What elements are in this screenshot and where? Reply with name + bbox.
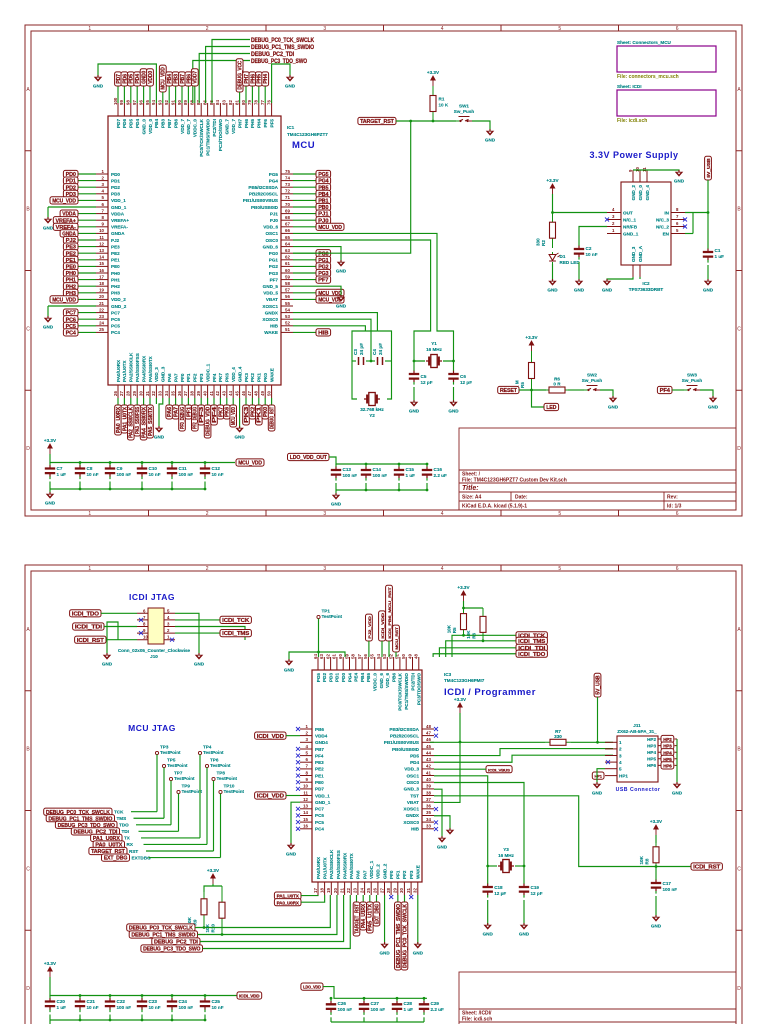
- svg-text:C12: C12: [212, 466, 221, 471]
- IC1 top pin names: [116, 118, 275, 156]
- svg-text:33: 33: [426, 824, 431, 829]
- capacitor C24 100 nF: [167, 996, 193, 1013]
- svg-text:+3.3V: +3.3V: [650, 819, 663, 824]
- svg-text:PC2/TDI: PC2/TDI: [410, 673, 415, 691]
- svg-text:GND_2: GND_2: [382, 863, 387, 879]
- svg-text:GND_0: GND_0: [638, 185, 643, 201]
- J11 pin HP1: [605, 775, 617, 777]
- svg-text:12 pF: 12 pF: [531, 891, 543, 896]
- global label ICDI_PB6_MCU_RST: [386, 585, 393, 641]
- svg-text:24 pF: 24 pF: [378, 343, 383, 355]
- svg-text:PD5: PD5: [129, 119, 134, 128]
- svg-text:10 nF: 10 nF: [212, 1005, 224, 1010]
- svg-text:MCU: MCU: [292, 140, 315, 151]
- svg-text:TestPoint: TestPoint: [174, 776, 195, 781]
- +3.3V power symbol: [427, 70, 440, 86]
- svg-text:GND4: GND4: [315, 740, 328, 745]
- global label PF4: [657, 386, 672, 394]
- svg-text:20: 20: [333, 888, 338, 893]
- svg-text:81: 81: [234, 100, 239, 105]
- svg-text:J11: J11: [633, 723, 641, 728]
- svg-text:VDD_7: VDD_7: [180, 119, 185, 134]
- svg-text:24: 24: [359, 888, 364, 893]
- J10 pin 10 / pin 1: [137, 639, 175, 641]
- svg-text:2.2 uF: 2.2 uF: [431, 1007, 444, 1012]
- wire to C19: [523, 866, 525, 881]
- capacitor C6 12 pF: [448, 368, 472, 385]
- IC2 pin NR/FB: [607, 226, 621, 228]
- svg-text:VDD7: VDD7: [193, 71, 199, 84]
- wire IC1 pin2: [78, 180, 96, 182]
- wire IC1 right pin68: [293, 219, 316, 221]
- ground: [336, 295, 347, 309]
- global label PC5: [63, 322, 78, 330]
- svg-text:C: C: [737, 326, 741, 332]
- wire DEBUG_PC0_TCK_SWCLK: [212, 40, 250, 104]
- junction: [426, 489, 429, 492]
- resistor R8 10K: [639, 843, 659, 867]
- svg-text:VDD_7: VDD_7: [231, 119, 236, 134]
- svg-text:File: TM4C123GH6PZT7 Custom De: File: TM4C123GH6PZT7 Custom Dev Kit.sch: [462, 478, 567, 484]
- no-connect IC3 pin15: [296, 820, 300, 824]
- svg-text:PA5_SSI0TX: PA5_SSI0TX: [148, 406, 154, 436]
- wire C22 gnd: [109, 1015, 111, 1021]
- global label PH5: [255, 72, 262, 86]
- svg-text:PD1: PD1: [335, 673, 340, 682]
- wire IC1 pin18: [78, 285, 96, 287]
- global label MCU_VDD: [236, 459, 264, 467]
- junction: [363, 997, 366, 1000]
- global label PF3: [198, 405, 205, 425]
- no-connect J10 pin1: [170, 638, 174, 642]
- svg-text:HIB: HIB: [411, 827, 420, 832]
- svg-text:Sheet: Connectors_MCU: Sheet: Connectors_MCU: [617, 40, 672, 45]
- svg-text:TM4C123GH6PMI7: TM4C123GH6PMI7: [444, 678, 485, 683]
- global label DEBUG_PC3_TDO_SWO: [55, 821, 117, 829]
- svg-text:D1: D1: [560, 254, 566, 259]
- LED D1 RED LED: [549, 252, 580, 265]
- svg-text:10 nF: 10 nF: [149, 1005, 161, 1010]
- wire R6 to SW2: [568, 389, 584, 391]
- svg-text:20: 20: [99, 294, 104, 299]
- capacitor C25 10 nF: [200, 996, 224, 1013]
- wire IC1 pin19: [78, 292, 96, 294]
- wire NRST to TARGET_RST: [293, 121, 411, 253]
- svg-text:TestPoint: TestPoint: [224, 789, 245, 794]
- svg-text:+3.3V: +3.3V: [525, 335, 538, 340]
- capacitor C22 100 nF: [105, 996, 131, 1013]
- svg-text:IC1: IC1: [287, 125, 295, 130]
- switch SW3 Sw_Push: [682, 373, 703, 392]
- svg-text:C6: C6: [460, 374, 466, 379]
- svg-text:93: 93: [158, 100, 163, 105]
- no-connect X: [434, 807, 438, 811]
- svg-text:PF3: PF3: [409, 870, 414, 879]
- wire bottom pin 30: [143, 398, 145, 405]
- wire IC1 pin11: [78, 239, 96, 241]
- wire 5V_USB to IN: [685, 180, 708, 213]
- IC1 left pin stubs and numbers: [96, 169, 108, 333]
- global label ICDI_VBUS: [486, 766, 512, 773]
- wire top pin label PH6: [251, 86, 253, 103]
- wire ICDI_TDI: [104, 626, 137, 628]
- global label MCU_VDD: [230, 405, 237, 427]
- wire C25 gnd: [204, 1015, 206, 1021]
- +3.3V power symbol: [44, 438, 57, 454]
- svg-text:GND_4: GND_4: [645, 185, 650, 201]
- svg-text:PF4: PF4: [212, 373, 217, 382]
- wire ICDI_VDD pin2: [286, 735, 300, 737]
- wire vlabel D: [395, 652, 397, 657]
- wire IC2 top GND: [633, 170, 679, 172]
- svg-text:WAKE: WAKE: [264, 330, 278, 335]
- junction: [482, 639, 485, 642]
- svg-text:5: 5: [558, 511, 561, 517]
- svg-text:EN: EN: [663, 231, 670, 236]
- svg-text:PA1/U0TX: PA1/U0TX: [122, 359, 127, 382]
- global label PB0: [316, 203, 331, 211]
- wire DEBUG_PC3_TDO_SWO to IC3: [203, 895, 351, 949]
- svg-text:57: 57: [285, 288, 290, 293]
- svg-text:R8: R8: [645, 858, 650, 864]
- +3.3V power symbol: [207, 868, 220, 884]
- IC1 bottom pin names: [116, 352, 275, 382]
- svg-text:91: 91: [170, 100, 175, 105]
- svg-text:Title:: Title:: [462, 485, 479, 492]
- svg-text:28: 28: [386, 888, 391, 893]
- svg-text:16: 16: [99, 268, 104, 273]
- svg-text:OSC1: OSC1: [406, 773, 419, 778]
- wire DEBUG_PC1_TMS_SWDIO: [206, 47, 250, 104]
- svg-text:C11: C11: [179, 466, 188, 471]
- wire TP9 to TDI: [178, 794, 180, 832]
- wire top pin label PH4: [264, 86, 266, 103]
- svg-text:PA0/U0RX: PA0/U0RX: [316, 856, 321, 879]
- svg-text:GND_1: GND_1: [315, 800, 331, 805]
- wire PA1_U0TX: [301, 894, 318, 897]
- svg-text:PF4: PF4: [315, 753, 324, 758]
- global label HP1: [592, 772, 604, 779]
- ground: [43, 217, 54, 231]
- global label PH7: [243, 72, 250, 86]
- svg-text:ZX62-AB-5PA_31_: ZX62-AB-5PA_31_: [617, 729, 657, 734]
- svg-text:DEBUG_PC1_TMS_SWDIO: DEBUG_PC1_TMS_SWDIO: [251, 44, 314, 51]
- svg-text:PF7: PF7: [318, 278, 328, 284]
- wire bottom GND drop 1: [159, 398, 163, 428]
- global label PH4: [262, 72, 269, 86]
- wire bottom pin 40: [207, 398, 209, 405]
- wire VDD_3: [155, 398, 157, 404]
- global label PE0: [63, 263, 78, 271]
- wire DEBUG_PC0_TCK_SWCLK to IC3: [195, 895, 330, 928]
- wire IC1 pin6 to GND: [48, 206, 96, 208]
- wire J11 pin5 gnd: [597, 769, 605, 784]
- IC2 pin N/C_3: [671, 219, 685, 221]
- svg-text:PF2: PF2: [193, 373, 198, 382]
- wire IN to C1 junction: [707, 213, 709, 247]
- svg-text:PF0: PF0: [389, 870, 394, 879]
- global label PB7: [179, 72, 186, 86]
- svg-text:10K: 10K: [639, 855, 644, 864]
- svg-text:PJ0: PJ0: [270, 218, 279, 223]
- wire ICDI_TCK row: [452, 635, 516, 657]
- svg-text:Date:: Date:: [515, 495, 528, 501]
- svg-text:PD7: PD7: [116, 119, 121, 128]
- svg-text:PE1: PE1: [315, 773, 324, 778]
- svg-text:+3.3V: +3.3V: [44, 961, 57, 966]
- global label DEBUG_VDD: [204, 405, 211, 438]
- resistor R1 10 K: [430, 86, 449, 121]
- svg-text:66: 66: [285, 228, 290, 233]
- no-connect J11 pin4: [606, 760, 610, 764]
- svg-text:VDD_6: VDD_6: [263, 225, 278, 230]
- svg-text:24: 24: [99, 321, 104, 326]
- svg-text:42: 42: [215, 391, 220, 396]
- wire IC1 pin13: [78, 252, 96, 254]
- wire IC1 right pin56: [293, 298, 316, 300]
- svg-text:PC5: PC5: [111, 324, 120, 329]
- svg-text:59: 59: [285, 274, 290, 279]
- no-connect X: [683, 218, 687, 222]
- svg-text:C20: C20: [57, 999, 66, 1004]
- wire TP1: [318, 619, 320, 652]
- wire PA4_U1RX stub: [362, 895, 364, 902]
- svg-text:40: 40: [426, 777, 431, 782]
- wire J10 pin3: [175, 627, 245, 641]
- global label DEBUG_RST: [268, 405, 275, 431]
- no-connect X: [434, 727, 438, 731]
- svg-text:HP4: HP4: [647, 750, 656, 755]
- wire OSC0 to Y1: [293, 240, 431, 356]
- svg-text:OSC0: OSC0: [265, 238, 278, 243]
- capacitor C26 100 nF: [326, 998, 352, 1015]
- svg-text:35: 35: [426, 810, 431, 815]
- svg-text:PB0/USB0ID: PB0/USB0ID: [392, 747, 420, 752]
- global label PF0_DEBUG: [179, 405, 186, 431]
- svg-text:36: 36: [177, 391, 182, 396]
- svg-text:60: 60: [338, 654, 343, 659]
- no-connect X: [683, 225, 687, 229]
- wire bottom pin 43: [226, 398, 228, 405]
- +3.3V power symbol: [44, 961, 57, 977]
- svg-text:TMS: TMS: [117, 816, 127, 821]
- wire OSC0 to Y3: [434, 783, 524, 867]
- svg-text:Sw_Push: Sw_Push: [682, 378, 703, 383]
- wire C10 to gnd rail: [141, 482, 143, 490]
- svg-text:1: 1: [619, 740, 622, 745]
- svg-text:GND: GND: [448, 409, 459, 414]
- wire TP8 to RST: [213, 781, 215, 851]
- svg-text:PA3/SSI0FSS: PA3/SSI0FSS: [135, 353, 140, 382]
- global label PA0_U0RX: [115, 405, 122, 435]
- svg-text:42: 42: [426, 764, 431, 769]
- svg-text:PC7: PC7: [315, 807, 324, 812]
- svg-text:PB4: PB4: [360, 673, 365, 682]
- no-connect X: [409, 895, 413, 899]
- wire net TDO: [136, 824, 171, 826]
- svg-text:Sw_Push: Sw_Push: [582, 378, 603, 383]
- svg-text:PE0: PE0: [315, 780, 324, 785]
- svg-text:6: 6: [676, 26, 679, 32]
- svg-text:PC3/TDO/SWO: PC3/TDO/SWO: [417, 673, 422, 706]
- svg-text:C16: C16: [434, 467, 443, 472]
- global label LED: [544, 403, 559, 411]
- svg-text:25: 25: [366, 888, 371, 893]
- svg-text:TDO: TDO: [119, 823, 129, 828]
- svg-text:2: 2: [206, 511, 209, 517]
- global label ICDI_TDI: [73, 623, 104, 631]
- global label 5V_USB: [705, 156, 712, 180]
- svg-text:37: 37: [183, 391, 188, 396]
- wire ICDI_TMS: [175, 632, 220, 634]
- svg-text:C24: C24: [179, 999, 188, 1004]
- J11 pin HP3: [658, 745, 677, 747]
- J11 pin 1: [605, 741, 617, 743]
- global label ICDI_TDO: [516, 650, 547, 658]
- wire IC1 pin10: [78, 232, 96, 234]
- wire bottom pin 31: [149, 398, 151, 405]
- svg-text:VDD_5: VDD_5: [263, 291, 278, 296]
- no-connect IC3 pin9: [296, 780, 300, 784]
- svg-text:64: 64: [313, 654, 318, 659]
- global label ICDI_TCK: [516, 632, 547, 640]
- global label PG0: [316, 250, 331, 258]
- wire bottom gnd 1: [384, 895, 386, 944]
- svg-text:GND: GND: [547, 288, 558, 293]
- wire Y1 left: [414, 356, 425, 361]
- no-connect IC3 pin5: [296, 754, 300, 758]
- wire C16 gnd: [426, 483, 428, 490]
- svg-text:PB1/USB0VBUS: PB1/USB0VBUS: [384, 740, 419, 745]
- wire IC1 right pin70: [293, 206, 316, 208]
- svg-text:21: 21: [339, 888, 344, 893]
- wire C29 gnd: [423, 1017, 425, 1022]
- ground: [93, 75, 104, 89]
- svg-text:47: 47: [247, 391, 252, 396]
- wire C3-C4 mid: [366, 360, 375, 362]
- svg-text:43: 43: [426, 757, 431, 762]
- svg-text:N/C_2: N/C_2: [656, 224, 669, 229]
- test point TP1: [317, 609, 343, 620]
- svg-text:ICDI_VBUS: ICDI_VBUS: [488, 767, 510, 772]
- svg-text:PD4: PD4: [410, 760, 419, 765]
- wire SW2 to GND: [600, 390, 613, 398]
- svg-text:PE3: PE3: [111, 244, 120, 249]
- svg-text:PJ1: PJ1: [270, 211, 279, 216]
- ground: [651, 915, 662, 929]
- svg-text:HIB: HIB: [318, 331, 328, 337]
- wire PF4 to SW3: [672, 389, 684, 391]
- svg-text:VDD_0: VDD_0: [148, 119, 153, 134]
- wire NR/FB to C2: [579, 227, 607, 244]
- svg-text:D: D: [737, 446, 741, 452]
- switch SW2 Sw_Push: [582, 373, 603, 392]
- no-connect X: [434, 820, 438, 824]
- svg-text:GND_0: GND_0: [141, 119, 146, 135]
- J10 pin 9 / pin 2: [137, 632, 175, 634]
- wire vlabel B: [381, 641, 383, 657]
- no-connect IC3 pin8: [296, 774, 300, 778]
- capacitor C15 1 uF: [394, 464, 415, 481]
- IC3 top pins: [313, 654, 422, 711]
- svg-text:C1: C1: [715, 248, 721, 253]
- svg-text:39: 39: [196, 391, 201, 396]
- J11 pin 3: [605, 755, 617, 757]
- IC2 bottom pin GND_A: [639, 265, 641, 277]
- svg-text:75: 75: [285, 169, 290, 174]
- global label PG2: [316, 263, 331, 271]
- global label PC7: [63, 309, 78, 317]
- global label PB4: [166, 72, 173, 86]
- svg-text:+3.3V: +3.3V: [427, 70, 440, 75]
- svg-text:1 uF: 1 uF: [57, 472, 67, 477]
- global label PA1_U0RX: [91, 834, 122, 842]
- svg-text:58: 58: [351, 654, 356, 659]
- global label LDO_VDD: [301, 983, 323, 990]
- svg-text:TP7: TP7: [174, 771, 183, 776]
- junction: [109, 488, 112, 491]
- svg-text:XOSC1: XOSC1: [403, 807, 419, 812]
- wire DEBUG_PC2_TDI: [199, 54, 250, 104]
- svg-text:31: 31: [406, 888, 411, 893]
- wire net TMS: [134, 817, 165, 819]
- no-connect IC3 pin7: [296, 767, 300, 771]
- wire top pin label PB6: [187, 86, 189, 103]
- svg-text:DEBUG_PC2_TDI: DEBUG_PC2_TDI: [251, 51, 294, 58]
- IC2 top pin GND_0: [639, 170, 641, 182]
- svg-text:USB Connector: USB Connector: [616, 787, 661, 793]
- global label PD0: [63, 170, 78, 178]
- ground: [234, 426, 245, 440]
- svg-text:PD3: PD3: [111, 192, 120, 197]
- svg-text:21: 21: [99, 301, 104, 306]
- svg-text:PC4: PC4: [315, 827, 324, 832]
- resistor R7 330: [545, 729, 571, 746]
- svg-text:PJ2: PJ2: [111, 238, 120, 243]
- wire ICDI_VBUS: [434, 768, 486, 770]
- IC3 left pins: [300, 724, 331, 832]
- svg-text:PK3: PK3: [244, 373, 249, 382]
- svg-text:ICDI_TMS: ICDI_TMS: [222, 631, 249, 637]
- svg-text:49: 49: [407, 654, 412, 659]
- wire IC1 right pin73: [293, 186, 316, 188]
- wire TP5 to TMS: [163, 768, 165, 819]
- svg-text:TP1: TP1: [322, 609, 331, 614]
- wire IC1 right pin59: [293, 279, 316, 281]
- svg-text:12: 12: [303, 797, 308, 802]
- global label PD6: [121, 72, 128, 86]
- junction: [423, 997, 426, 1000]
- wire IC1 right pin75: [293, 173, 316, 175]
- global label DEBUG_PC1_TMS_SWDIO: [46, 815, 114, 823]
- global label PA5_SSI0TX: [147, 405, 154, 438]
- svg-text:TST: TST: [410, 793, 419, 798]
- svg-text:PD3: PD3: [328, 673, 333, 682]
- global label PA4_SSI0RX: [140, 405, 147, 440]
- IC3 right pins: [384, 724, 434, 832]
- svg-text:41: 41: [426, 770, 431, 775]
- capacitor C23 10 nF: [137, 996, 161, 1013]
- svg-text:EXT_DBG: EXT_DBG: [104, 856, 128, 862]
- svg-text:TP9: TP9: [182, 784, 191, 789]
- IC1 top pin stubs and numbers: [113, 97, 272, 116]
- wire C11 to gnd rail: [171, 482, 173, 490]
- svg-text:VDDC_1: VDDC_1: [205, 363, 210, 382]
- wire IC1 pin1: [78, 173, 96, 175]
- crystal Y2 32.768 kHz: [364, 393, 380, 406]
- wire IC1 pin16: [78, 272, 96, 274]
- svg-text:40: 40: [202, 391, 207, 396]
